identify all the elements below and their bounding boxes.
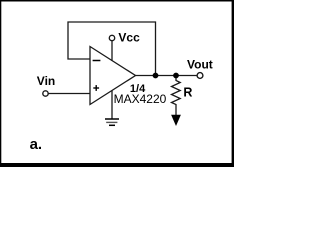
op-amp U1 triangle xyxy=(90,47,136,105)
svg-text:MAX4220: MAX4220 xyxy=(114,92,167,106)
op-amp non-inverting input plus sign xyxy=(93,87,99,89)
wire Vin to non-inverting input xyxy=(48,93,90,95)
resistor R xyxy=(172,78,181,117)
svg-text:R: R xyxy=(183,85,192,99)
terminal Vout xyxy=(197,73,203,79)
terminal Vin xyxy=(43,91,48,96)
junction node: resistor joins output xyxy=(173,73,179,79)
wire feedback loop from output node to inverting input xyxy=(68,22,156,76)
svg-text:Vout: Vout xyxy=(187,58,213,72)
wire Vcc stem to op-amp top edge xyxy=(111,41,113,61)
op-amp inverting input minus sign xyxy=(93,60,101,62)
ground arrow below resistor xyxy=(171,115,181,126)
wire op-amp ground pin stem xyxy=(111,91,113,119)
wire output rail xyxy=(136,75,198,77)
ground symbol below op-amp xyxy=(105,118,119,120)
svg-text:Vin: Vin xyxy=(37,74,55,88)
power terminal Vcc xyxy=(109,35,114,40)
svg-text:Vcc: Vcc xyxy=(118,31,140,45)
svg-text:a.: a. xyxy=(30,136,43,153)
junction node: feedback joins output xyxy=(153,73,159,79)
